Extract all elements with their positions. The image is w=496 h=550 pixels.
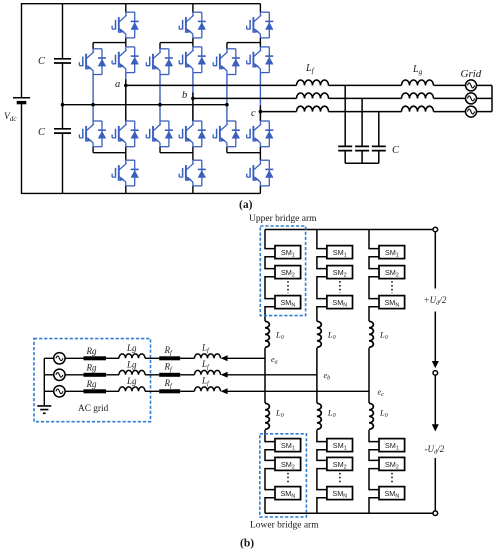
wire: leg a below output xyxy=(125,79,127,121)
inductor Lf b xyxy=(195,370,221,374)
submodule SM2 upper arm b xyxy=(327,266,353,279)
wire: phase a Lg to grid xyxy=(434,84,466,86)
wire: leg c clamp lower to junction xyxy=(226,147,228,153)
submodule SM1 lower arm c xyxy=(379,439,405,452)
arrow down 2 xyxy=(432,424,439,431)
wire: phase b Lf to Lg xyxy=(329,97,402,99)
transistor T4 leg a xyxy=(112,160,139,186)
inductor L0 lower arm c xyxy=(369,403,373,429)
wire: src stub c xyxy=(44,390,53,392)
capacitor C (top) xyxy=(54,59,71,63)
wire: phase c line to MMC xyxy=(227,390,370,392)
resistor Rf b xyxy=(159,373,180,377)
wire: phase c to Lf xyxy=(260,111,296,113)
wire: upper L0 to phase node b xyxy=(316,348,318,403)
wire: leg b midbus to clamp lower xyxy=(159,105,161,122)
wire: leg c below output xyxy=(259,106,261,121)
inductor L0 upper arm c xyxy=(369,321,373,347)
wire: leg b clamp upper drop xyxy=(159,43,161,49)
inductor Lg phase b xyxy=(402,93,434,98)
capacitor C filter a xyxy=(338,146,352,150)
svg-text:Lg: Lg xyxy=(126,376,137,386)
arrow phase c xyxy=(221,388,228,394)
transistor T3 leg a xyxy=(112,121,139,147)
inductor Lg b xyxy=(119,370,145,374)
wire: Rf to Lf c xyxy=(180,390,194,392)
submodule SMN upper arm a xyxy=(275,296,301,309)
inductor Lg phase c xyxy=(402,106,434,111)
arrow phase b xyxy=(221,372,228,378)
submodule SM1 lower arm a xyxy=(275,439,301,452)
wire: leg c T3-T4 junction xyxy=(227,147,261,160)
submodule SMN lower arm b xyxy=(327,487,353,500)
AC source a xyxy=(54,353,65,364)
wire: leg b below output xyxy=(192,92,194,121)
submodule SM1 upper arm a xyxy=(275,246,301,259)
transistor T1 leg c xyxy=(247,12,274,38)
wire: phase b Lg to grid xyxy=(434,97,466,99)
wire: leg b clamp to midbus xyxy=(159,75,161,105)
wire: Rf to Lf b xyxy=(180,374,194,376)
transistor T3 leg b xyxy=(179,121,206,147)
wire: Rg to Lg a xyxy=(106,357,119,359)
transistor T2 leg c xyxy=(247,47,274,73)
inductor Lf phase a xyxy=(297,80,329,85)
transistor clamp lower leg a xyxy=(79,121,106,147)
svg-text:Grid: Grid xyxy=(461,68,482,80)
capacitor C filter b xyxy=(355,146,369,150)
junction dot midbus-clampB xyxy=(158,103,162,107)
wire: grid phase b right stub xyxy=(477,97,493,99)
wire: leg a output node xyxy=(125,73,127,121)
wire: lower arm c chain xyxy=(369,430,379,442)
wire: cap tap b xyxy=(361,98,363,146)
wire: lower arm a chain xyxy=(265,430,275,442)
wire: MMC top rail xyxy=(265,229,433,231)
terminal circle bottom xyxy=(433,511,438,516)
transistor T1 leg a xyxy=(112,12,139,38)
node a dot xyxy=(124,84,128,88)
wire: Lg to Rf b xyxy=(145,374,159,376)
wire: leg b clamp lower to junction xyxy=(159,147,161,153)
wire: leg a clamp lower to junction xyxy=(92,147,94,153)
wire: leg a clamp upper drop xyxy=(92,43,94,49)
wire: grid phase a right stub xyxy=(477,84,493,86)
submodule SMN lower arm c xyxy=(379,487,405,500)
wire: phase a Lf to Lg xyxy=(329,84,402,86)
svg-text:C: C xyxy=(38,56,46,67)
wire: DC bus lower xyxy=(434,375,436,425)
wire: leg c midbus to clamp lower xyxy=(226,105,228,122)
AC source b xyxy=(54,369,65,380)
wire: phase b to Lf xyxy=(193,97,297,99)
wire: src to Rg a xyxy=(65,357,83,359)
dashed box upper bridge arm xyxy=(260,226,305,316)
junction dot midbus-cap xyxy=(61,103,65,107)
inductor L0 lower arm a xyxy=(265,403,269,429)
dots between SM2 and SMN upper arm b xyxy=(339,281,341,293)
wire: leg c rail to T1 xyxy=(259,4,261,13)
wire: leg b T3-T4 junction xyxy=(160,147,193,160)
submodule SM2 lower arm c xyxy=(379,457,405,470)
inductor Lf a xyxy=(195,354,221,358)
dashed box AC grid xyxy=(34,339,151,422)
resistor Rf a xyxy=(159,356,180,360)
dots between SM2 and SMN lower arm a xyxy=(287,473,289,484)
transistor clamp lower leg b xyxy=(146,121,173,147)
wire: midpoint bus xyxy=(63,104,227,106)
wire: DC bus upper2 xyxy=(434,312,436,362)
node c dot xyxy=(259,110,263,114)
ground xyxy=(37,406,51,413)
wire: Rg to Lg c xyxy=(106,390,119,392)
wire: Rg to Lg b xyxy=(106,374,119,376)
inductor L0 upper arm a xyxy=(265,321,269,347)
inductor Lf c xyxy=(195,387,221,391)
resistor Rg c xyxy=(84,389,107,393)
wire: upper L0 to phase node a xyxy=(264,348,266,403)
transistor T4 leg c xyxy=(247,160,274,186)
svg-text:Rg: Rg xyxy=(86,346,97,356)
wire: grid phase c right stub xyxy=(477,111,493,113)
wire: DC bus upper xyxy=(434,232,436,289)
dots between SM2 and SMN lower arm c xyxy=(391,473,393,484)
wire: leg a T4 to bottom rail xyxy=(125,186,127,193)
wire: leg b T4 to bottom rail xyxy=(192,186,194,193)
wire: cap tap a xyxy=(344,85,346,146)
transistor T2 leg b xyxy=(179,47,206,73)
inductor Lg a xyxy=(119,354,145,358)
wire: Lg to Rf c xyxy=(145,390,159,392)
resistor Rf c xyxy=(159,389,180,393)
wire: upper arm b chain xyxy=(317,230,327,249)
wire: Rf to Lf a xyxy=(180,357,194,359)
inductor Lf phase b xyxy=(297,93,329,98)
wire: leg c T1-T2 junction xyxy=(227,38,261,47)
svg-text:Lg: Lg xyxy=(126,343,137,353)
wire: phase b line to MMC xyxy=(227,374,317,376)
wire: leg b output node xyxy=(192,73,194,121)
dots between SM2 and SMN upper arm c xyxy=(391,281,393,293)
wire: grid neutral vertical xyxy=(491,85,493,111)
inductor Lf phase c xyxy=(297,106,329,111)
dots between SM2 and SMN upper arm a xyxy=(287,281,289,293)
capacitor C filter c xyxy=(372,146,386,150)
svg-text:C: C xyxy=(38,127,46,138)
transistor T4 leg b xyxy=(179,160,206,186)
wire: src stub b xyxy=(44,374,53,376)
svg-text:Lg: Lg xyxy=(126,359,137,369)
wire: leg c T4 to bottom rail xyxy=(259,186,261,193)
wire: leg a rail to T1 xyxy=(125,4,127,13)
resistor Rg b xyxy=(84,373,107,377)
wire: leg c clamp upper drop xyxy=(226,43,228,49)
svg-text:b: b xyxy=(182,90,187,101)
wire: phase c Lf to Lg xyxy=(329,111,402,113)
svg-text:Upper bridge arm: Upper bridge arm xyxy=(249,214,317,224)
wire: lower arm b chain xyxy=(317,430,327,442)
wire: leg a T3-T4 junction xyxy=(93,147,126,160)
wire: cap star rail xyxy=(345,162,379,164)
svg-text:AC grid: AC grid xyxy=(78,404,109,414)
wire: upper arm c chain xyxy=(369,230,379,249)
transistor T3 leg c xyxy=(247,121,274,147)
submodule SM1 upper arm b xyxy=(327,246,353,259)
svg-text:(a): (a) xyxy=(239,199,253,211)
junction dot midbus-clampA xyxy=(91,103,95,107)
arrow down 1 xyxy=(432,361,439,368)
wire: src to Rg b xyxy=(65,374,83,376)
wire: leg c output node xyxy=(259,73,261,121)
battery Vdc xyxy=(13,97,30,99)
wire: capacitor branch xyxy=(62,4,64,194)
wire: leg a midbus to clamp lower xyxy=(92,105,94,122)
wire: leg b T1-T2 junction xyxy=(160,38,193,47)
submodule SMN lower arm a xyxy=(275,487,301,500)
AC source grid phase b xyxy=(466,93,477,104)
dashed box lower bridge arm xyxy=(260,434,307,517)
inductor L0 upper arm b xyxy=(317,321,321,347)
wire: leg c clamp to midbus xyxy=(226,75,228,105)
submodule SM1 lower arm b xyxy=(327,439,353,452)
wire: bottom DC rail xyxy=(22,192,261,194)
wire: leg a T1-T2 junction xyxy=(93,38,126,47)
dots between SM2 and SMN lower arm b xyxy=(339,473,341,484)
svg-text:c: c xyxy=(251,108,256,119)
submodule SM2 upper arm c xyxy=(379,266,405,279)
inductor Lg c xyxy=(119,387,145,391)
capacitor C (bottom) xyxy=(54,129,71,133)
transistor T1 leg b xyxy=(179,12,206,38)
transistor T2 leg a xyxy=(112,47,139,73)
wire: upper arm a chain xyxy=(265,230,275,249)
submodule SM1 upper arm c xyxy=(379,246,405,259)
wire: phase c Lg to grid xyxy=(434,111,466,113)
AC source c xyxy=(54,386,65,397)
terminal circle mid xyxy=(433,371,438,376)
wire: phase a line to MMC xyxy=(227,357,266,359)
junction dot midbus-clampC xyxy=(225,103,229,107)
wire: MMC bottom rail xyxy=(265,512,433,514)
svg-text:Rg: Rg xyxy=(86,362,97,372)
arrow phase a xyxy=(221,355,228,361)
node b dot xyxy=(191,97,195,101)
wire: src stub a xyxy=(44,357,53,359)
wire: cap bottoms xyxy=(345,151,379,164)
submodule SM2 lower arm b xyxy=(327,457,353,470)
wire: DC bus lower2 xyxy=(434,458,436,511)
submodule SMN upper arm b xyxy=(327,296,353,309)
wire: leg a clamp to midbus xyxy=(92,75,94,105)
svg-text:+Ud/2: +Ud/2 xyxy=(424,295,447,307)
AC source grid phase c xyxy=(466,106,477,117)
wire: Lg to Rf a xyxy=(145,357,159,359)
submodule SMN upper arm c xyxy=(379,296,405,309)
svg-text:Rg: Rg xyxy=(86,379,97,389)
wire: phase a to Lf xyxy=(126,84,297,86)
wire: src to Rg c xyxy=(65,390,83,392)
wire: top DC rail xyxy=(22,3,261,5)
wire: source neutral bus xyxy=(43,358,45,406)
svg-text:Lower bridge arm: Lower bridge arm xyxy=(250,521,319,531)
transistor clamp upper leg a xyxy=(79,49,106,75)
AC source grid phase a xyxy=(466,80,477,91)
inductor L0 lower arm b xyxy=(317,403,321,429)
transistor clamp upper leg c xyxy=(213,49,240,75)
wire: left DC link xyxy=(21,3,23,194)
svg-text:C: C xyxy=(392,145,400,156)
submodule SM2 lower arm a xyxy=(275,457,301,470)
svg-text:(b): (b) xyxy=(240,538,254,550)
transistor clamp upper leg b xyxy=(146,49,173,75)
wire: cap tap c xyxy=(378,112,380,147)
submodule SM2 upper arm a xyxy=(275,266,301,279)
wire: upper L0 to phase node c xyxy=(368,348,370,403)
resistor Rg a xyxy=(84,356,107,360)
wire: leg b rail to T1 xyxy=(192,4,194,13)
transistor clamp lower leg c xyxy=(213,121,240,147)
inductor Lg phase a xyxy=(402,80,434,85)
svg-text:a: a xyxy=(115,79,120,90)
terminal circle top xyxy=(433,227,438,232)
